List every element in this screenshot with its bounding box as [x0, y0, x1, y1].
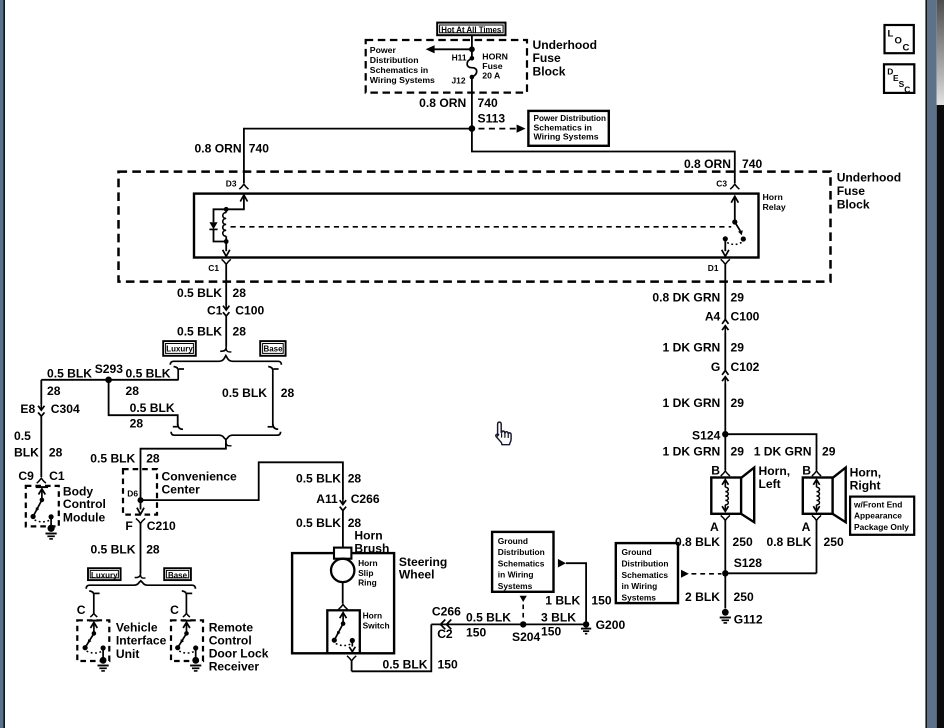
svg-text:C304: C304	[51, 402, 80, 416]
label box: LOC	[885, 25, 914, 53]
svg-text:1 DK GRN: 1 DK GRN	[663, 340, 721, 354]
svg-text:Center: Center	[162, 483, 201, 497]
wire: VIU branch	[89, 591, 94, 613]
svg-text:HORN: HORN	[482, 52, 508, 62]
svg-text:Appearance: Appearance	[854, 511, 902, 521]
svg-text:C100: C100	[731, 309, 760, 323]
svg-text:0.5 BLK: 0.5 BLK	[177, 325, 222, 339]
svg-text:740: 740	[249, 142, 269, 156]
svg-text:O: O	[895, 36, 902, 47]
svg-text:Distribution: Distribution	[370, 55, 419, 65]
svg-text:C1: C1	[208, 263, 219, 273]
svg-text:S128: S128	[734, 556, 763, 570]
svg-text:0.5 BLK: 0.5 BLK	[177, 286, 222, 300]
svg-text:740: 740	[742, 157, 762, 171]
svg-text:0.5 BLK: 0.5 BLK	[90, 451, 135, 465]
svg-text:C2: C2	[437, 627, 453, 641]
box: steering wheel	[292, 553, 394, 653]
node: coil top	[224, 207, 229, 212]
svg-text:Door Lock: Door Lock	[209, 646, 269, 660]
svg-text:Distribution: Distribution	[622, 559, 669, 569]
dashed box: vehicle interface unit	[77, 620, 109, 661]
relay box: horn relay	[194, 194, 759, 258]
svg-text:1 BLK: 1 BLK	[545, 594, 580, 608]
dashed box: underhood fuse block (top)	[366, 40, 527, 93]
label box: Ground Distribution Schematics in Wiring Systems (right)	[616, 543, 678, 603]
label box: Luxury (lower)	[88, 568, 121, 580]
brace: vehicle interface / remote receiver split	[86, 581, 195, 589]
svg-text:28: 28	[281, 386, 295, 400]
svg-text:0.5 BLK: 0.5 BLK	[296, 516, 341, 530]
ground: vehicle interface unit	[100, 657, 107, 664]
relay switch	[731, 196, 738, 203]
box: horn switch	[327, 610, 360, 653]
svg-text:29: 29	[731, 396, 745, 410]
dashed box: body control module	[26, 486, 59, 527]
label box: Base (lower)	[164, 568, 191, 580]
svg-text:0.5 BLK: 0.5 BLK	[382, 657, 427, 671]
wire: luxury branch stub	[174, 367, 179, 380]
wire: base branch	[268, 367, 273, 426]
wire: battery feed from Hot At All Times into fuse block	[471, 36, 473, 50]
svg-text:0.5 BLK: 0.5 BLK	[130, 401, 175, 415]
wire: slip ring to horn switch	[342, 582, 344, 604]
svg-text:Receiver: Receiver	[209, 659, 260, 673]
svg-text:D6: D6	[127, 489, 138, 499]
svg-text:Right: Right	[850, 478, 881, 492]
svg-text:20 A: 20 A	[482, 71, 501, 81]
fuse HORN Fuse 20 A	[471, 49, 473, 58]
svg-text:C9: C9	[18, 469, 34, 483]
svg-text:Block: Block	[837, 198, 870, 212]
brace: options recombine (opens up)	[171, 432, 281, 440]
svg-text:Underhood: Underhood	[533, 38, 598, 52]
svg-text:Wheel: Wheel	[399, 567, 435, 581]
brace: luxury/base split (opens down)	[170, 356, 281, 365]
svg-text:0.8 ORN: 0.8 ORN	[684, 157, 731, 171]
svg-text:Power: Power	[370, 45, 397, 55]
svg-text:0.5 BLK: 0.5 BLK	[466, 610, 511, 624]
svg-text:Ground: Ground	[622, 547, 652, 557]
svg-text:in Wiring: in Wiring	[622, 581, 658, 591]
dashed link: relay coil to switch	[231, 226, 732, 228]
svg-text:C266: C266	[351, 492, 380, 506]
switch: vehicle interface unit	[89, 620, 99, 622]
horn left (speaker)	[711, 478, 741, 514]
svg-text:Fuse: Fuse	[533, 51, 562, 65]
relay coil	[225, 209, 227, 212]
svg-text:Fuse: Fuse	[482, 61, 502, 71]
svg-text:Convenience: Convenience	[162, 470, 238, 484]
node S124	[722, 431, 728, 437]
cursor: pointing hand	[496, 422, 511, 445]
svg-text:0.8 ORN: 0.8 ORN	[419, 96, 466, 110]
wire: ground bus	[431, 623, 586, 625]
label box: Base (upper)	[260, 341, 285, 356]
svg-text:Luxury: Luxury	[91, 570, 118, 580]
diode: relay clamp diode	[214, 209, 227, 222]
svg-text:Base: Base	[264, 344, 283, 354]
node S128	[722, 570, 728, 576]
svg-text:29: 29	[731, 340, 745, 354]
svg-text:250: 250	[734, 590, 754, 604]
svg-text:D3: D3	[226, 178, 237, 188]
wire: horn switch to C2	[352, 624, 432, 671]
wire: S293 to E8	[40, 380, 42, 404]
svg-text:C210: C210	[147, 519, 176, 533]
node S293	[105, 377, 112, 384]
svg-text:C100: C100	[235, 303, 264, 317]
dashed box: convenience center	[123, 469, 157, 514]
svg-text:A: A	[802, 520, 811, 534]
svg-text:A11: A11	[316, 492, 338, 506]
svg-text:H11: H11	[452, 53, 467, 63]
dashed box: underhood fuse block (relay)	[119, 172, 831, 282]
svg-text:Horn: Horn	[358, 558, 378, 568]
svg-text:Wiring Systems: Wiring Systems	[370, 75, 435, 85]
svg-text:150: 150	[591, 594, 611, 608]
svg-text:28: 28	[146, 451, 160, 465]
svg-text:250: 250	[824, 535, 844, 549]
svg-text:28: 28	[233, 286, 247, 300]
svg-text:29: 29	[731, 290, 745, 304]
svg-text:Switch: Switch	[363, 620, 390, 630]
window chrome: left frame bar	[0, 0, 3, 728]
node: coil bottom	[224, 239, 229, 244]
svg-text:Systems: Systems	[622, 592, 657, 602]
svg-text:1 DK GRN: 1 DK GRN	[754, 445, 812, 459]
svg-text:Distribution: Distribution	[498, 547, 545, 557]
svg-text:1 DK GRN: 1 DK GRN	[663, 445, 721, 459]
node S113	[469, 125, 476, 132]
dashed arrow: ground distribution to S128	[681, 570, 689, 578]
svg-text:0.5 BLK: 0.5 BLK	[90, 543, 135, 557]
svg-text:Luxury: Luxury	[166, 344, 193, 354]
svg-text:Horn: Horn	[363, 611, 383, 621]
wire: right horn to S128	[725, 572, 816, 574]
wire: S124 to right horn	[725, 434, 816, 470]
svg-text:150: 150	[541, 625, 561, 639]
svg-text:F: F	[125, 519, 132, 533]
svg-text:C1: C1	[207, 303, 223, 317]
wire: luxury branch to S293	[41, 379, 178, 381]
svg-text:C: C	[170, 603, 179, 617]
svg-text:Control: Control	[209, 633, 252, 647]
wire: S293 second branch	[109, 380, 178, 425]
svg-text:B: B	[802, 464, 811, 478]
svg-text:BLK: BLK	[14, 445, 39, 459]
window chrome: right frame bars	[925, 0, 927, 728]
svg-text:Hot At All Times: Hot At All Times	[441, 25, 501, 35]
node: fuse feed junction	[469, 46, 475, 52]
svg-text:C266: C266	[432, 605, 461, 619]
wire: C102 to S124	[724, 384, 726, 435]
dashed arrow: S113 to power distribution schematics box	[479, 128, 518, 130]
svg-text:Slip: Slip	[358, 568, 373, 578]
svg-text:S204: S204	[512, 630, 541, 644]
svg-text:28: 28	[47, 384, 61, 398]
svg-text:28: 28	[146, 543, 160, 557]
ground: body control module internal	[48, 525, 55, 532]
wire: remote branch	[182, 591, 187, 613]
wire: S124 to left horn	[724, 434, 726, 470]
svg-text:Fuse: Fuse	[837, 184, 866, 198]
svg-text:Relay: Relay	[763, 202, 786, 212]
svg-text:Left: Left	[759, 477, 781, 491]
wire: coil to C1	[225, 242, 227, 252]
svg-text:Package Only: Package Only	[854, 522, 909, 532]
svg-text:Horn: Horn	[763, 192, 783, 202]
svg-text:Schematics: Schematics	[622, 570, 669, 580]
connector: horn switch output	[347, 656, 356, 661]
svg-text:29: 29	[731, 445, 745, 459]
svg-text:A: A	[710, 520, 719, 534]
wire: C304 to body control module	[40, 416, 42, 477]
svg-text:0.5 BLK: 0.5 BLK	[222, 386, 267, 400]
label box: Hot At All Times	[437, 23, 505, 36]
svg-text:Block: Block	[533, 64, 566, 78]
svg-text:0.5 BLK: 0.5 BLK	[126, 367, 171, 381]
svg-text:150: 150	[438, 657, 458, 671]
svg-text:C102: C102	[731, 360, 760, 374]
wire: S113 to left branch	[244, 129, 472, 184]
svg-text:J12: J12	[452, 75, 466, 85]
node S204	[520, 621, 526, 627]
svg-text:2 BLK: 2 BLK	[685, 590, 720, 604]
wire: G200 riser from ground distribution	[558, 559, 566, 568]
horn brush	[334, 548, 351, 559]
dashed box: remote control door lock receiver	[171, 620, 203, 661]
svg-text:1 DK GRN: 1 DK GRN	[663, 396, 721, 410]
label box: Ground Distribution Schematics in Wiring Systems (left)	[492, 532, 553, 592]
dashed arrow: ground distribution to S204	[520, 596, 527, 602]
svg-text:150: 150	[466, 625, 486, 639]
wire: convenience center to steering wheel feed	[141, 462, 343, 500]
svg-text:28: 28	[126, 384, 140, 398]
wire: S128 to G112	[724, 573, 726, 608]
svg-text:Horn,: Horn,	[759, 464, 791, 478]
wire: S113 down and right to horn relay C3	[472, 129, 735, 184]
label box: Luxury (upper)	[163, 341, 196, 356]
svg-text:Ring: Ring	[358, 577, 377, 587]
wire: D3 into relay coil	[240, 195, 247, 202]
svg-text:A4: A4	[705, 309, 721, 323]
svg-text:G112: G112	[734, 613, 763, 627]
svg-text:Wiring Systems: Wiring Systems	[534, 132, 599, 142]
svg-text:S124: S124	[692, 428, 721, 442]
node: convenience center D6 junction	[138, 497, 144, 503]
svg-text:0.8 BLK: 0.8 BLK	[766, 535, 811, 549]
switch: horn switch	[340, 613, 347, 619]
wire: C100 to option brace	[225, 316, 227, 347]
svg-text:G: G	[711, 360, 720, 374]
svg-text:Schematics in: Schematics in	[370, 65, 428, 75]
svg-text:in Wiring: in Wiring	[498, 570, 534, 580]
svg-text:C: C	[77, 603, 86, 617]
wire: brace to convenience center	[141, 440, 226, 498]
window chrome: scrollbar column gradient	[937, 0, 944, 105]
svg-text:0.5: 0.5	[14, 429, 31, 443]
svg-text:Horn,: Horn,	[850, 465, 882, 479]
svg-text:C3: C3	[716, 178, 727, 188]
svg-text:S293: S293	[95, 362, 124, 376]
svg-text:0.5 BLK: 0.5 BLK	[296, 471, 341, 485]
switch: body control module horn switch	[36, 486, 48, 488]
svg-text:C: C	[904, 84, 910, 94]
svg-text:0.5 BLK: 0.5 BLK	[47, 367, 92, 381]
svg-text:29: 29	[822, 445, 836, 459]
label box: Power Distribution Schematics in Wiring Systems (S113)	[528, 111, 608, 146]
wire: C210 to lower option brace	[140, 523, 142, 573]
svg-text:Ground: Ground	[498, 536, 528, 546]
horn slip ring	[331, 559, 354, 582]
svg-text:Unit: Unit	[116, 647, 140, 661]
switch: remote control door lock receiver	[182, 620, 192, 622]
svg-text:D1: D1	[708, 263, 719, 273]
wire: C100 to C102	[724, 333, 726, 371]
svg-text:Control: Control	[63, 497, 106, 511]
wire: C266 to horn brush	[342, 511, 344, 549]
svg-text:28: 28	[49, 445, 63, 459]
wire: arrow to power distribution (left)	[433, 48, 472, 50]
svg-text:E8: E8	[20, 402, 35, 416]
svg-text:Underhood: Underhood	[837, 171, 902, 185]
ground G112	[722, 609, 729, 616]
svg-text:w/Front End: w/Front End	[853, 499, 902, 509]
svg-text:S113: S113	[478, 112, 506, 126]
svg-text:28: 28	[348, 471, 362, 485]
node G200	[583, 621, 589, 627]
svg-text:0.8 ORN: 0.8 ORN	[195, 142, 242, 156]
label box: w/Front End Appearance Package Only	[850, 497, 914, 535]
svg-text:G200: G200	[596, 618, 626, 632]
svg-text:Interface: Interface	[116, 634, 167, 648]
svg-text:28: 28	[233, 325, 247, 339]
svg-text:3 BLK: 3 BLK	[541, 610, 576, 624]
svg-text:0.8 DK GRN: 0.8 DK GRN	[652, 290, 720, 304]
svg-text:L: L	[888, 29, 894, 40]
svg-text:C1: C1	[49, 469, 65, 483]
svg-text:0.8 BLK: 0.8 BLK	[675, 535, 720, 549]
ground G200	[581, 628, 591, 630]
wire: convenience center exit arrow	[140, 500, 142, 509]
horn right (speaker)	[803, 478, 833, 514]
svg-text:250: 250	[733, 535, 753, 549]
svg-text:Systems: Systems	[498, 581, 533, 591]
svg-text:Schematics: Schematics	[498, 558, 545, 568]
svg-text:Module: Module	[63, 511, 106, 525]
svg-text:740: 740	[478, 96, 498, 110]
svg-text:C: C	[903, 43, 910, 54]
ground: remote receiver	[192, 657, 199, 664]
svg-text:B: B	[711, 464, 720, 478]
svg-text:Vehicle: Vehicle	[116, 621, 158, 635]
svg-text:28: 28	[130, 416, 144, 430]
label box: DESC	[884, 64, 914, 93]
svg-text:Base: Base	[168, 570, 187, 580]
